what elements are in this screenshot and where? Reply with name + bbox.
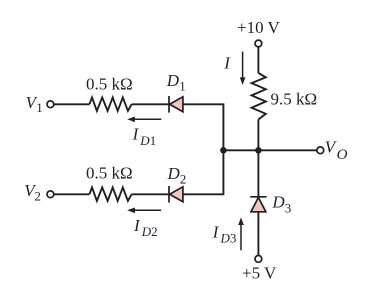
svg-text:1: 1 — [179, 78, 186, 93]
svg-text:+10 V: +10 V — [237, 18, 281, 37]
svg-text:0.5 kΩ: 0.5 kΩ — [86, 164, 133, 183]
svg-text:0.5 kΩ: 0.5 kΩ — [86, 75, 133, 94]
svg-text:D1: D1 — [139, 133, 156, 148]
svg-text:2: 2 — [34, 188, 41, 203]
svg-text:9.5 kΩ: 9.5 kΩ — [271, 89, 318, 108]
svg-text:D: D — [166, 71, 180, 90]
svg-text:D: D — [167, 164, 181, 183]
svg-text:+5 V: +5 V — [242, 264, 277, 283]
svg-text:D3: D3 — [220, 231, 237, 246]
svg-text:3: 3 — [285, 201, 292, 216]
svg-text:1: 1 — [36, 100, 43, 115]
svg-text:D: D — [271, 192, 285, 211]
svg-text:D2: D2 — [141, 224, 158, 239]
svg-text:2: 2 — [180, 171, 187, 186]
svg-text:O: O — [337, 147, 348, 163]
